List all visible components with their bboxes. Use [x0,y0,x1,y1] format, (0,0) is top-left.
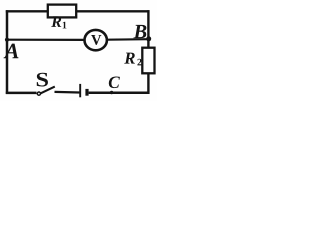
voltmeter [85,30,107,50]
node B junction dot [146,36,151,41]
wire: bottom segment, left corner to switch [6,92,37,95]
wire: top segment, left of R1 [6,10,48,12]
node A junction dot [5,38,9,42]
wire: right vertical, R2 down to bottom corner [147,73,149,94]
wire: A-B line, right of voltmeter [107,38,148,41]
battery cell: short plate [85,89,88,96]
switch S pivot terminal [37,92,40,95]
resistor R1 [48,5,76,18]
voltmeter V label [91,35,101,45]
switch S blade [40,87,54,94]
wire: left vertical branch [6,10,9,94]
label S [37,73,48,87]
label B [133,25,146,38]
wire: A-B line, left of voltmeter [7,39,85,41]
label A [4,44,19,59]
label R2 [124,53,135,64]
wire: top segment, right of R1 [76,10,150,12]
resistor R2 [142,48,154,74]
label C [109,76,120,88]
label R1 [51,16,61,26]
battery cell: long plate [79,84,81,97]
wire: right vertical, B down to R2 [147,10,149,48]
junction dot on bottom wire under C [110,91,113,94]
wire: bottom segment, battery to right corner [89,91,150,94]
wire: bottom segment, switch to battery [55,91,80,94]
